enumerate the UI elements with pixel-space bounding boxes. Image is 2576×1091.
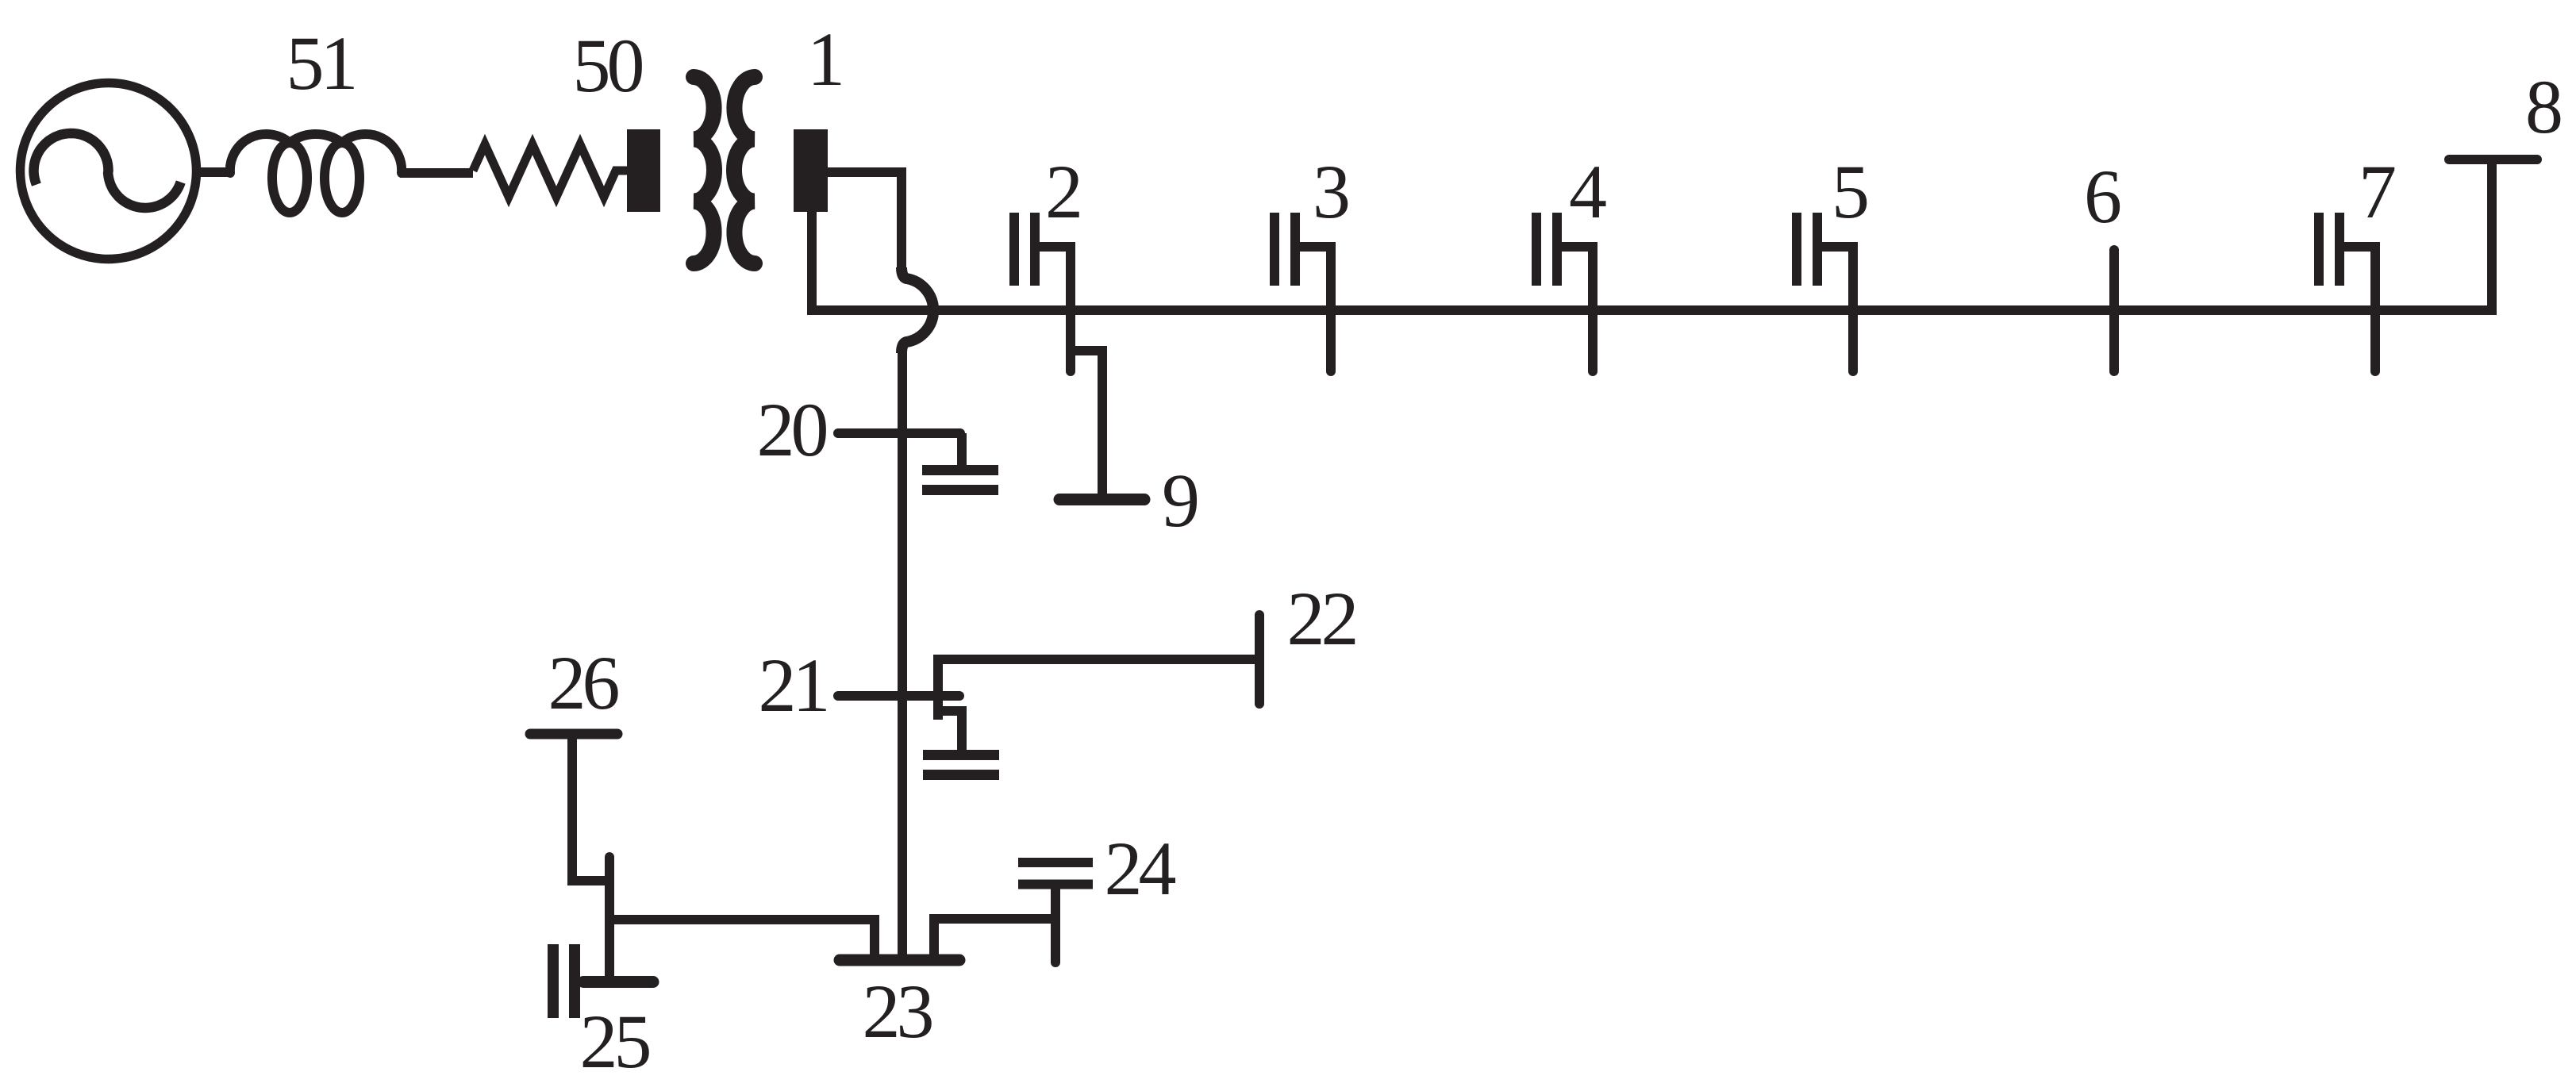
svg-text:51: 51 bbox=[286, 21, 355, 106]
svg-text:23: 23 bbox=[863, 969, 932, 1054]
svg-text:9: 9 bbox=[1162, 458, 1200, 543]
svg-text:2: 2 bbox=[1045, 149, 1083, 234]
svg-text:24: 24 bbox=[1105, 826, 1176, 911]
svg-text:20: 20 bbox=[757, 387, 827, 472]
svg-text:21: 21 bbox=[759, 643, 827, 728]
svg-text:22: 22 bbox=[1287, 576, 1355, 661]
svg-text:5: 5 bbox=[1832, 149, 1870, 234]
svg-text:50: 50 bbox=[573, 23, 643, 108]
svg-text:26: 26 bbox=[548, 640, 619, 725]
svg-text:6: 6 bbox=[2084, 154, 2122, 239]
svg-text:7: 7 bbox=[2359, 149, 2397, 234]
svg-text:25: 25 bbox=[580, 999, 650, 1084]
svg-text:8: 8 bbox=[2525, 64, 2563, 149]
svg-text:4: 4 bbox=[1569, 149, 1607, 234]
svg-text:3: 3 bbox=[1313, 149, 1351, 234]
svg-text:1: 1 bbox=[807, 17, 845, 102]
